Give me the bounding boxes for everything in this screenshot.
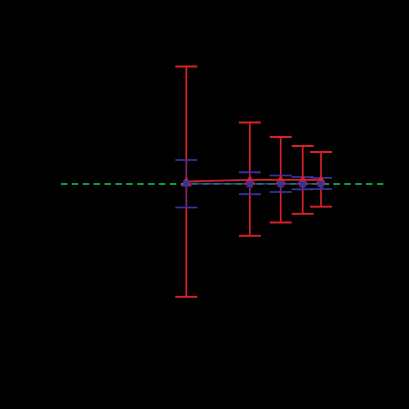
blue square marker P4 (300, 181, 306, 187)
green dashed reference line (left segment) (61, 183, 186, 185)
blue error bar P5 (310, 178, 332, 189)
red error bar P5 (310, 152, 332, 207)
blue square marker P1 (183, 180, 189, 186)
green dashed reference line (right segment) (321, 183, 383, 185)
red triangle marker P3 (275, 175, 286, 185)
blue series line (186, 183, 321, 185)
red triangle marker P5 (316, 175, 327, 185)
blue error bar P2 (239, 172, 261, 194)
red error bar P3 (270, 137, 292, 223)
blue error bar P4 (292, 177, 314, 189)
red triangle marker P1 (181, 177, 192, 187)
blue square marker P2 (247, 181, 253, 187)
blue square marker P5 (318, 181, 324, 187)
red error bar P4 (292, 146, 314, 214)
blue error bar P3 (270, 176, 292, 193)
blue error bar P1 (175, 160, 197, 208)
red triangle marker P2 (244, 175, 255, 185)
green dashed reference line (middle segment over blue) (186, 183, 321, 185)
blue square marker P3 (278, 181, 284, 187)
red triangle marker P4 (297, 175, 308, 185)
red error bar P2 (239, 123, 261, 236)
red error bar P1 (175, 67, 197, 297)
red series line (186, 180, 321, 182)
